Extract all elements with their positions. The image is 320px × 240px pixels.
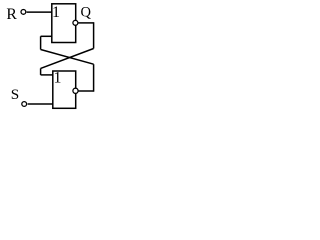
svg-text:S: S (11, 86, 19, 103)
svg-text:R: R (6, 6, 17, 23)
svg-text:Q: Q (81, 5, 92, 21)
svg-text:1: 1 (54, 70, 62, 87)
svg-text:1: 1 (52, 4, 60, 21)
